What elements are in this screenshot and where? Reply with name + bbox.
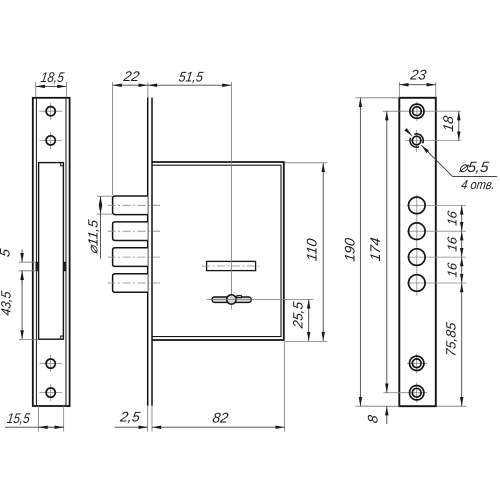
dimension 2,5 tail and outside arrow: [115, 426, 148, 428]
svg-text:18,5: 18,5: [40, 69, 65, 85]
bolt 4 centerline: [108, 282, 161, 284]
svg-text:2,5: 2,5: [118, 409, 141, 425]
dimension 5 extension lines: [19, 261, 36, 263]
left view screw hole 2 centerlines: [40, 139, 63, 141]
dimension 190: [359, 98, 361, 406]
dimension 18 extension (hole2 to line): [436, 140, 461, 142]
svg-text:51,5: 51,5: [178, 69, 204, 85]
bolt 3 centerline: [108, 256, 161, 258]
svg-text:15,5: 15,5: [6, 410, 31, 426]
dimension 23: [399, 84, 436, 86]
left view screw hole 1: [46, 107, 55, 116]
big hole 3: [409, 249, 426, 266]
svg-text:75,85: 75,85: [444, 321, 459, 357]
left latch tick: [36, 262, 39, 271]
dimension 25,5 extension: [207, 298, 314, 300]
bottom screw hole F: [410, 386, 424, 400]
key bit bump: [237, 296, 241, 298]
dimension 43,5: [21, 271, 23, 340]
dimension 75,85: [461, 283, 463, 406]
big hole 1: [409, 197, 426, 214]
left view inner fold line (left): [35, 98, 37, 406]
dimension 18,5: [36, 85, 67, 87]
dimension 110 top extension: [285, 162, 328, 164]
left view: strike/face plate outline: [33, 98, 70, 406]
chain dimension 16 (hole2-hole3): [461, 231, 463, 257]
dimension 15,5: [5, 426, 64, 428]
bolt 2 centerline: [108, 230, 161, 232]
big hole 2 centerline / 16 extension: [407, 230, 466, 232]
bottom screw hole E centerlines: [407, 362, 427, 364]
dimension 8 outside arrow: [386, 406, 388, 424]
left view screw hole 4: [46, 388, 55, 397]
chain dimension 16 (hole3-hole4): [461, 257, 463, 283]
dimension 23 extension lines: [398, 82, 400, 97]
top screw hole 1 centerlines: [402, 110, 436, 112]
bottom screw hole E: [410, 356, 424, 370]
deadbolt pin 2: [113, 222, 148, 241]
strip bottom extension lines: [147, 406, 149, 432]
bolt 1 centerline: [108, 204, 161, 206]
dimension 22 left extension line: [112, 82, 114, 195]
big hole 2: [409, 223, 426, 240]
faceplate strip edge (right line): [151, 98, 153, 406]
dimension 18: [458, 111, 460, 140]
dimension 82: [152, 426, 285, 428]
dimension 15,5 extension lines: [38, 406, 40, 432]
big hole 4 centerline / 16 extension: [407, 282, 467, 284]
top screw hole 1: [410, 104, 424, 118]
svg-text:16: 16: [445, 235, 460, 252]
big hole 1 centerline / 16 extension: [407, 204, 466, 206]
dimension 174 top extension: [383, 110, 403, 112]
big hole 4: [409, 275, 426, 292]
diameter 5,5 leader upper segment: [406, 129, 412, 135]
left view slot opening: [39, 163, 64, 340]
svg-text:16: 16: [445, 261, 460, 278]
dimension 25,5: [308, 299, 310, 341]
key bit bar: [212, 297, 251, 302]
lock case inner wall: [152, 165, 281, 336]
dimension 110: [322, 163, 324, 341]
dimension 82 right extension: [284, 342, 286, 432]
svg-text:174: 174: [367, 236, 383, 262]
dimension 174: [386, 111, 388, 393]
deadbolt pin 1: [113, 196, 148, 215]
svg-text:82: 82: [212, 410, 230, 426]
chain dimension 16 (hole1-hole2): [461, 205, 463, 231]
right latch tick: [63, 262, 66, 271]
svg-text:22: 22: [122, 68, 141, 84]
dimension 190 bottom extension: [356, 405, 400, 407]
left view inner fold line (right): [65, 98, 67, 406]
dimension 5 outside arrows: [21, 250, 23, 263]
top screw hole 2 (countersink arcs): [412, 136, 421, 145]
dimension 51,5: [148, 84, 232, 86]
svg-text:16: 16: [445, 209, 460, 226]
lock case outline: [152, 162, 284, 340]
svg-text:43,5: 43,5: [0, 290, 13, 317]
front face plate outline: [399, 98, 436, 406]
left view screw hole 3: [46, 359, 55, 368]
svg-text:25,5: 25,5: [290, 300, 305, 330]
bottom screw hole F centerlines / 8 extension: [384, 392, 428, 394]
follower slot centerline: [202, 265, 260, 267]
diameter 5,5 leader lower segment: [421, 145, 452, 176]
top screw hole 2 centerlines: [405, 140, 436, 142]
big hole 3 centerline / 16 extension: [407, 256, 466, 258]
faceplate strip edge (left line): [147, 98, 149, 406]
dimension diameter 11,5: [100, 196, 102, 214]
dimension 75,85 bottom extension: [437, 405, 467, 407]
dimension 22/51,5 middle extension line: [147, 82, 149, 97]
key hub circle: [227, 295, 236, 304]
dimension 43,5 bottom extension: [19, 338, 39, 340]
dimension diameter 11,5 extension lines: [97, 195, 112, 197]
slot bottom-right corner notch: [61, 336, 64, 339]
left view screw hole 2: [46, 136, 55, 145]
keyhole vertical centerline / 51,5 extension: [230, 82, 232, 295]
dimension 22: [113, 84, 148, 86]
svg-text:4 отв.: 4 отв.: [460, 177, 496, 192]
svg-text:⌀5,5: ⌀5,5: [458, 159, 491, 176]
svg-text:110: 110: [304, 237, 320, 262]
dimension 18,5 extension lines: [35, 82, 37, 98]
left view screw hole 1 centerlines: [40, 110, 63, 112]
deadbolt pin 4: [113, 274, 148, 293]
big holes vertical centerline: [416, 195, 418, 296]
svg-text:⌀11,5: ⌀11,5: [85, 218, 100, 255]
svg-text:18: 18: [440, 115, 456, 133]
svg-text:23: 23: [409, 67, 428, 83]
left view screw hole 3 centerlines: [40, 363, 63, 365]
diameter 5,5 leader shelf: [453, 176, 498, 178]
follower slot: [207, 261, 256, 270]
svg-text:190: 190: [342, 237, 358, 263]
dimension 190 top extension: [356, 97, 400, 99]
deadbolt pin 3: [113, 248, 148, 267]
slot top-right corner notch: [61, 163, 64, 166]
left view screw hole 4 centerlines: [40, 392, 63, 394]
dimension 110/25,5 bottom extension: [285, 341, 328, 343]
